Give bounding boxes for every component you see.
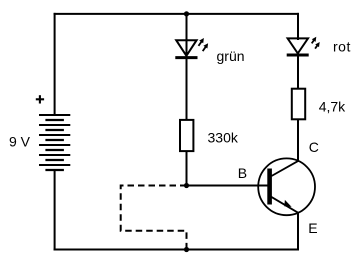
wire: top rail: [54, 13, 299, 15]
resistor R1 330k: [180, 120, 193, 151]
svg-text:E: E: [308, 220, 317, 236]
svg-text:B: B: [238, 165, 247, 181]
wire: red LED to resistor 4,7k: [297, 55, 299, 89]
wire: emitter to bottom rail: [297, 212, 299, 250]
wire: green LED branch from top rail: [186, 14, 188, 58]
node: top junction: [184, 11, 189, 16]
wire: battery + stub (left rail upper): [54, 13, 56, 115]
wire: dashed sensor gap wire: [121, 186, 187, 250]
label: battery +: [36, 95, 44, 103]
transistor Q1: [258, 158, 315, 215]
svg-text:330k: 330k: [208, 129, 239, 145]
wire: base node to transistor base: [187, 185, 269, 187]
svg-text:9 V: 9 V: [9, 134, 31, 150]
svg-text:rot: rot: [333, 38, 351, 54]
wire: resistor 330k to base node: [186, 151, 188, 187]
wire: battery - stub (left rail lower): [54, 169, 56, 251]
wire: green LED to resistor 330k: [186, 58, 188, 120]
node: bottom junction: [184, 247, 189, 252]
battery B1 9V: [39, 115, 70, 170]
svg-text:4,7k: 4,7k: [319, 98, 346, 114]
wire: resistor 4,7k to collector: [297, 119, 299, 162]
resistor R2 4,7k: [292, 89, 305, 120]
wire: top rail to red LED (right branch upper): [297, 13, 299, 40]
wire: bottom rail: [54, 249, 299, 251]
LED D1 green: [175, 38, 208, 58]
LED D2 red: [287, 37, 320, 55]
node: base junction: [184, 183, 189, 188]
svg-text:grün: grün: [217, 48, 245, 64]
svg-text:C: C: [309, 139, 319, 155]
